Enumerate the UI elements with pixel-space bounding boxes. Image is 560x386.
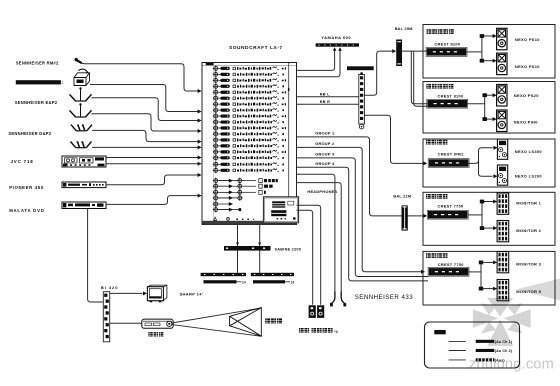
svg-text:SENNHEISER 433: SENNHEISER 433 xyxy=(355,294,414,301)
JVC double deck xyxy=(62,156,106,167)
dual gooseneck mic 1 xyxy=(71,124,92,131)
node box1 b xyxy=(480,59,484,63)
svg-text:GROUP 1: GROUP 1 xyxy=(315,131,335,136)
speaker NEXO PS10 #1 xyxy=(497,28,507,50)
wire mixer to YAMAHA (R) xyxy=(297,50,341,77)
legend row 3 xyxy=(449,359,466,361)
amplifier CREST 8100 #2 xyxy=(427,99,468,108)
svg-text:CREST 8100: CREST 8100 xyxy=(434,42,460,47)
title box5 (CJK) xyxy=(426,253,431,258)
speaker zone box 1 xyxy=(423,25,555,79)
svg-text:NEXO LS400: NEXO LS400 xyxy=(515,149,543,154)
speaker zone box 4 xyxy=(423,192,555,245)
wire podium1 to CH xyxy=(92,98,198,121)
speaker NEXO PS20 #1 xyxy=(497,85,507,107)
box1 split wires xyxy=(466,51,482,53)
wire RB R xyxy=(297,103,359,105)
speaker MONITOR 3 xyxy=(497,252,509,273)
svg-text:JVC 718: JVC 718 xyxy=(11,159,34,164)
amplifier CREST IPR2 xyxy=(428,159,469,168)
amplifier CREST 7750 #2 xyxy=(428,267,469,276)
svg-text:BAL 25M: BAL 25M xyxy=(395,27,413,31)
svg-text:NEXO PS20: NEXO PS20 xyxy=(514,93,539,98)
watermark logo xyxy=(473,298,531,346)
node box1 a xyxy=(480,34,484,38)
svg-text:(Au Ch 2): (Au Ch 2) xyxy=(495,349,513,353)
projection light cone xyxy=(172,308,261,323)
legend row 2 xyxy=(449,350,466,352)
legend box xyxy=(425,322,520,368)
mixer channel strips xyxy=(215,66,217,160)
TV SHARP 14 xyxy=(147,285,167,302)
speaker NEXO PIH0 xyxy=(497,110,507,132)
MALATA DVD player xyxy=(62,202,106,209)
wire dualmic2 to CH xyxy=(92,146,198,148)
speaker MONITOR 2 xyxy=(497,221,509,242)
speaker zone box 3 xyxy=(423,139,555,187)
wire dualmic1 to CH xyxy=(92,130,198,141)
wire to monitor speaker a xyxy=(297,210,313,305)
svg-text:BI 420: BI 420 xyxy=(101,285,119,290)
speaker NEXO LS200 xyxy=(497,165,507,185)
label projector (CJK) xyxy=(148,332,152,336)
speaker zone box 2 xyxy=(423,82,555,134)
title box3 (CJK) xyxy=(426,140,431,145)
svg-text:2: 2 xyxy=(62,81,64,85)
svg-text:CREST 8100: CREST 8100 xyxy=(438,93,464,98)
projection screen xyxy=(230,308,262,337)
amplifier CREST 8100 #1 xyxy=(426,48,467,57)
headphones symbol xyxy=(332,292,345,304)
mixer stereo pair rows xyxy=(215,162,217,172)
speaker NEXO PS10 #2 xyxy=(497,53,507,75)
PIONEER CD player xyxy=(62,182,106,188)
svg-text:GROUP 3: GROUP 3 xyxy=(315,152,335,157)
svg-text:MONITOR 2: MONITOR 2 xyxy=(516,228,541,233)
svg-text:CREST IPR2: CREST IPR2 xyxy=(438,152,464,157)
EQ bar unit xyxy=(347,66,374,70)
podium microphone 1 xyxy=(70,87,92,101)
SABINE 2200 unit xyxy=(224,246,271,251)
rack bar row1 right xyxy=(251,273,294,276)
patch strip xyxy=(359,75,365,125)
wire distributor to projector xyxy=(110,322,142,324)
box5 split wires xyxy=(469,271,481,273)
wire RB L xyxy=(297,96,359,98)
svg-text:CREST 7750: CREST 7750 xyxy=(438,262,464,267)
svg-text:HEADPHONES: HEADPHONES xyxy=(307,189,337,194)
svg-text:GROUP 2: GROUP 2 xyxy=(315,141,335,146)
wire GROUP 3 to box5 xyxy=(297,158,429,277)
svg-text:14: 14 xyxy=(291,280,295,284)
wire GROUP 4 to box5 xyxy=(297,167,429,281)
title box4 (CJK) xyxy=(426,194,431,199)
BAL 25M transformer xyxy=(396,40,402,67)
svg-text:MONITOR 1: MONITOR 1 xyxy=(516,200,541,205)
powered monitor speaker a xyxy=(309,305,316,318)
wire branch down to box2 (b) xyxy=(414,52,428,107)
wire GROUP 2 to box5 xyxy=(297,147,422,271)
wire MALATA video down to distributor xyxy=(88,209,104,302)
microphone icon (handheld) xyxy=(75,58,85,64)
redacted device label bar xyxy=(16,80,61,84)
box2 split wires xyxy=(467,103,485,105)
wire distributor to TV xyxy=(110,292,143,294)
BI 420 distributor strip xyxy=(103,292,109,342)
wire headphone L xyxy=(297,174,335,291)
wire branch down to box2 (a) xyxy=(411,51,427,104)
wire mic1 to CH xyxy=(84,64,197,91)
wires mixer down to SABINE xyxy=(237,225,239,247)
wire MALATA audio xyxy=(106,196,198,205)
rack bar row1 left xyxy=(201,273,246,276)
YAMAHA 600 unit xyxy=(316,43,359,46)
wire JVC L xyxy=(106,157,198,159)
speaker MONITOR 1 xyxy=(497,193,509,214)
box4 split wires xyxy=(468,214,482,216)
title box2 (CJK) xyxy=(426,84,431,89)
svg-text:YAMAHA 600: YAMAHA 600 xyxy=(321,35,351,40)
node box4 b xyxy=(480,226,484,230)
svg-text:NEXO PS10: NEXO PS10 xyxy=(515,64,540,69)
wire strip up to BAL 25M and box1 xyxy=(364,51,392,95)
svg-text:SHARP 14': SHARP 14' xyxy=(180,291,204,296)
wire to monitor speaker b xyxy=(297,205,321,304)
node box5 a xyxy=(479,261,483,265)
node box2 a xyxy=(483,93,487,97)
wire base station to CH xyxy=(90,85,198,112)
svg-text:NEXO PS10: NEXO PS10 xyxy=(515,37,540,42)
mixer frame xyxy=(202,63,297,225)
node box4 a xyxy=(480,200,484,204)
podium microphone 2 xyxy=(70,103,92,117)
wire headphone R xyxy=(297,183,342,292)
label powered monitors (CJK) xyxy=(299,328,304,333)
speaker NEXO LS400 xyxy=(497,139,507,159)
svg-text:SENNHEISER RM#2: SENNHEISER RM#2 xyxy=(16,61,59,66)
legend title block xyxy=(434,330,445,334)
svg-text:BAL 22M: BAL 22M xyxy=(393,194,411,198)
dual gooseneck mic 2 xyxy=(71,141,92,148)
svg-text:CREST 7750: CREST 7750 xyxy=(438,203,464,208)
wire PIONEER xyxy=(106,175,198,185)
wire JVC R xyxy=(106,163,198,165)
svg-text:zhulong.com: zhulong.com xyxy=(469,357,554,373)
rack bar row2 left xyxy=(204,280,237,283)
svg-text:SENNHEISER D&P2: SENNHEISER D&P2 xyxy=(8,131,51,136)
node box5 b xyxy=(479,287,483,291)
title box1 (CJK) xyxy=(427,29,432,34)
svg-text:*2: *2 xyxy=(334,329,339,334)
wire strip right down to box3 xyxy=(364,115,423,163)
rack bar row2 right xyxy=(253,280,285,283)
svg-text:PIONEER 450: PIONEER 450 xyxy=(9,185,44,190)
svg-text:NEXO PIH0: NEXO PIH0 xyxy=(514,120,539,125)
mixer bottom small icons xyxy=(214,217,217,220)
wire podium2 to CH xyxy=(92,114,198,131)
svg-text:14: 14 xyxy=(242,280,246,284)
mixer master fader panel xyxy=(263,197,298,223)
svg-text:MONITOR 3: MONITOR 3 xyxy=(516,261,541,266)
speaker MONITOR 5 xyxy=(497,280,509,301)
BAL 22M transformer xyxy=(402,205,408,230)
svg-text:SABINE 2200: SABINE 2200 xyxy=(275,247,302,251)
mixer output/master rows xyxy=(215,179,217,212)
svg-text:SOUNDCRAFT LX-7: SOUNDCRAFT LX-7 xyxy=(229,45,283,51)
watermark corner triangle xyxy=(516,279,560,301)
svg-text:MALATA DVD: MALATA DVD xyxy=(9,208,44,213)
mixer bottom bar xyxy=(202,221,297,225)
amplifier CREST 7750 #1 xyxy=(427,210,468,219)
powered monitor speaker b xyxy=(317,305,324,318)
box3 split wires xyxy=(468,148,492,164)
speaker zone box 5 xyxy=(423,251,555,305)
label screen (CJK) xyxy=(265,318,270,323)
legend row 1 xyxy=(449,340,466,342)
node box2 b xyxy=(483,117,487,121)
base station icon (3D box with arrow) xyxy=(74,69,90,85)
svg-text:GROUP 4: GROUP 4 xyxy=(315,161,335,166)
svg-text:RB R: RB R xyxy=(320,100,330,104)
projector xyxy=(142,319,173,328)
svg-text:NEXO LS200: NEXO LS200 xyxy=(515,173,543,178)
svg-text:SENNHEISER E&P2: SENNHEISER E&P2 xyxy=(15,100,58,105)
wire GROUP 1 to BAL22M/box4 xyxy=(297,137,424,216)
svg-text:RB L: RB L xyxy=(320,93,330,97)
wire mixer to YAMAHA (L) xyxy=(297,50,335,71)
